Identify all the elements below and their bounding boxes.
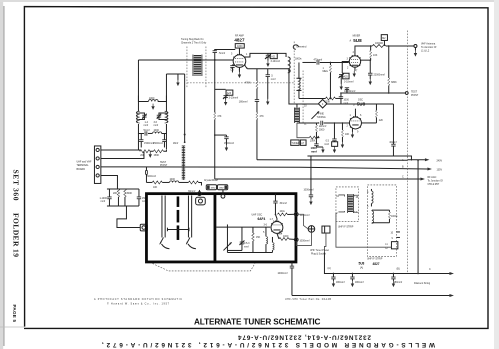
wire to coax connector: [117, 206, 140, 228]
svg-text:1500mmf: 1500mmf: [224, 142, 234, 145]
svg-text:30mmf: 30mmf: [188, 190, 196, 193]
B+ rail: [417, 160, 419, 273]
filament caps: [333, 273, 335, 275]
svg-text:MIXER: MIXER: [353, 34, 361, 37]
IF strip shield 1: [336, 187, 359, 222]
wire RF grid row: [138, 59, 233, 61]
osc plate stub: [354, 111, 356, 117]
ground: [149, 152, 152, 158]
trimmer 0.5-3mmf: [241, 227, 243, 242]
svg-text:240V: 240V: [436, 159, 442, 162]
svg-text:A PHOTOFACT STANDARD NOTATION: A PHOTOFACT STANDARD NOTATION SCHEMATIC: [94, 298, 182, 301]
svg-text:1000mmf: 1000mmf: [277, 272, 287, 275]
svg-text:1800s: 1800s: [295, 57, 302, 60]
wire T1 row: [101, 150, 140, 151]
resistor 1 MEG: [330, 62, 332, 64]
resistor 10K: [146, 181, 152, 183]
tuning shaft bar: [177, 196, 180, 207]
gang link line: [167, 228, 189, 230]
capacitor .5mmf: [267, 69, 269, 75]
bottom rail inside compartment: [227, 251, 272, 253]
wire T2 stub: [101, 151, 144, 158]
svg-text:A25: A25: [343, 76, 348, 79]
slug rack dashed gang: [186, 46, 188, 88]
resistor 300K vertical: [124, 189, 126, 197]
terminal 3: [96, 165, 99, 168]
lower network top rail: [107, 188, 139, 190]
svg-text:Filament String: Filament String: [414, 282, 431, 285]
capacitor 1500mmf agc: [214, 134, 216, 136]
top wall terminal 2: [222, 190, 224, 194]
svg-text:150K: 150K: [153, 154, 159, 157]
svg-text:POINT: POINT: [411, 94, 419, 97]
svg-text:UHF Tuner Power: UHF Tuner Power: [310, 249, 329, 252]
svg-text:1500mmf: 1500mmf: [146, 175, 156, 178]
box M2: [381, 35, 387, 41]
crystal mixer row components: [145, 167, 147, 171]
feedthrough terminal upper: [294, 212, 298, 216]
osc bottom rail: [307, 156, 411, 161]
wires plug: [296, 232, 311, 245]
svg-text:MEG: MEG: [322, 70, 328, 73]
variable cap arrow: [226, 224, 228, 250]
svg-text:1000: 1000: [169, 178, 175, 181]
svg-text:UHF-VHF Tuner Part No. DA14B: UHF-VHF Tuner Part No. DA14B: [285, 298, 331, 301]
resistor 20K: [140, 150, 150, 153]
osc tank coil: [265, 227, 267, 236]
capacitor 1500mmf right: [163, 133, 165, 139]
rotor wipe arcs: [161, 244, 169, 249]
svg-text:47K: 47K: [259, 115, 264, 118]
screen row wire: [245, 65, 248, 69]
resistor 10K lower: [297, 123, 309, 138]
svg-text:C: C: [402, 176, 404, 179]
svg-text:22K: 22K: [379, 119, 384, 122]
svg-text:FOLDER 19: FOLDER 19: [12, 213, 21, 257]
page edge shading top: [0, 0, 499, 2]
terminal 1: [96, 148, 99, 151]
svg-text:10K: 10K: [373, 54, 378, 57]
svg-text:1500mmf: 1500mmf: [153, 142, 163, 145]
svg-text:ALTERNATE TUNER SCHEMATIC: ALTERNATE TUNER SCHEMATIC: [194, 318, 321, 327]
svg-text:1N82: 1N82: [219, 188, 225, 190]
trimmer cap 1-4mmf: [138, 113, 144, 115]
svg-text:3300: 3300: [319, 129, 325, 132]
osc coil L6 slug: [293, 107, 295, 123]
ground: [177, 74, 179, 80]
svg-text:135V: 135V: [436, 169, 442, 172]
svg-text:Overwind: Overwind: [296, 46, 307, 49]
svg-text:1000mmf: 1000mmf: [299, 240, 309, 243]
svg-text:SET 360: SET 360: [12, 170, 21, 201]
resistor 1000 cathode: [277, 233, 279, 239]
capacitor 1-1000mmf: [108, 189, 110, 197]
dashed linkage below box: [152, 263, 255, 271]
svg-text:1000s: 1000s: [391, 215, 398, 218]
svg-text:180mmf: 180mmf: [336, 281, 345, 284]
svg-text:TUNING: TUNING: [316, 116, 325, 119]
feedthrough terminal lower: [294, 238, 298, 242]
svg-text:mmf: mmf: [153, 124, 158, 127]
IF coil b: [371, 209, 373, 212]
svg-text:180mmf: 180mmf: [355, 281, 364, 284]
wire: [163, 150, 166, 151]
power socket box: [322, 226, 330, 233]
svg-text:100000: 100000: [375, 42, 384, 45]
feedthrough 40mmf: [392, 104, 394, 144]
svg-text:3-10mmf: 3-10mmf: [344, 81, 354, 84]
svg-text:5U8: 5U8: [358, 261, 364, 265]
svg-text:mmf: mmf: [244, 245, 249, 248]
svg-text:UHF IF STRIP: UHF IF STRIP: [367, 258, 383, 261]
grid cap resistor 1000: [235, 44, 244, 48]
capacitor 1000mmf osc: [340, 92, 342, 94]
power plug circle: [308, 226, 315, 233]
svg-text:mmf: mmf: [311, 149, 317, 153]
neutralizing cap CN: [232, 64, 234, 67]
terminal 2: [96, 157, 99, 160]
ground: [151, 104, 154, 110]
svg-text:30mmf: 30mmf: [279, 202, 287, 205]
svg-text:mmf: mmf: [324, 143, 329, 146]
svg-text:1000: 1000: [149, 97, 155, 100]
filament return bus: [292, 294, 450, 296]
wire T3 long run to 135V arrow: [101, 167, 428, 169]
svg-text:(B): (B): [396, 267, 399, 270]
svg-text:2321N62/U-A-614, 2321N62/U-A-6: 2321N62/U-A-614, 2321N62/U-A-674: [238, 334, 371, 341]
svg-text:15K: 15K: [256, 236, 261, 239]
dashed chassis boundary: [406, 30, 408, 273]
trimmer A21 3-10mmf: [267, 53, 269, 55]
svg-text:4827: 4827: [234, 37, 245, 42]
arrow 135V: [427, 167, 432, 170]
resistor 22K: [361, 122, 376, 124]
svg-text:A21: A21: [271, 56, 276, 59]
B+ feed wire: [257, 159, 408, 162]
svg-text:470K: 470K: [245, 82, 251, 85]
capacitor 10000mmf: [346, 88, 348, 93]
wire T4 to lower network: [101, 175, 118, 189]
resistor 150K: [153, 150, 163, 153]
resistor 10K: [361, 59, 371, 61]
resistor 120K: [299, 97, 326, 99]
wire row 73.5: [166, 73, 184, 75]
svg-text:1000: 1000: [283, 235, 289, 238]
resistor 100K vertical: [315, 123, 317, 125]
svg-text:PAGE 5: PAGE 5: [12, 305, 17, 323]
svg-text:40mmf: 40mmf: [389, 141, 397, 144]
capacitor 1000mmf bold: [316, 137, 317, 138]
IF strip shield 2: [367, 185, 396, 257]
svg-text:20K: 20K: [113, 192, 118, 195]
capacitor 30mmf: [274, 194, 276, 202]
arrow RF AGC: [215, 178, 421, 180]
svg-text:mmf: mmf: [143, 124, 148, 127]
capacitor 1500mmf left: [139, 140, 143, 142]
svg-text:UHF and VHF: UHF and VHF: [76, 160, 92, 163]
svg-text:10K: 10K: [345, 133, 350, 136]
svg-text:300K: 300K: [126, 192, 132, 195]
resistor: [179, 181, 189, 183]
svg-text:47K: 47K: [217, 115, 222, 118]
svg-text:mmf: mmf: [100, 200, 105, 203]
resistor 1000 if: [372, 209, 390, 211]
svg-text:© Howard W. Sams & Co., Inc. 1: © Howard W. Sams & Co., Inc. 1957: [107, 302, 170, 305]
osc cathode ground: [351, 128, 353, 132]
filament bus: [324, 252, 449, 273]
mixer grid coil L5: [298, 62, 300, 78]
svg-text:(A): (A): [360, 267, 363, 270]
trimmer A25: [342, 61, 349, 73]
svg-text:1N82: 1N82: [210, 188, 216, 190]
svg-text:22000mmf: 22000mmf: [373, 74, 385, 77]
svg-text:100K: 100K: [310, 140, 316, 143]
svg-text:100s: 100s: [279, 210, 285, 213]
plate to 100000: [355, 46, 372, 56]
svg-text:18mf: 18mf: [173, 142, 179, 145]
resistor 470K: [256, 69, 258, 81]
svg-text:10000mmf: 10000mmf: [344, 90, 356, 93]
connector block I-1 I-2: [391, 242, 397, 249]
choke 1000: [162, 181, 169, 183]
svg-text:180mmf: 180mmf: [239, 101, 248, 104]
svg-text:3-10mmf: 3-10mmf: [229, 97, 239, 100]
capacitor 0.5mmf: [334, 122, 335, 123]
crystal diode 1N82 pack 1: [206, 185, 216, 190]
shield divider: [214, 194, 217, 262]
svg-text:3-10mmf: 3-10mmf: [270, 60, 280, 63]
osc grid row: [297, 122, 319, 124]
resistor 47K plate feed: [256, 112, 258, 119]
plate wire to A21 and coil: [245, 53, 286, 57]
RF plate coil L4: [288, 57, 290, 73]
capacitor 5mmf series: [145, 131, 147, 135]
IF coil a: [370, 189, 372, 191]
resistor 20K vertical: [117, 189, 119, 197]
feedback coil: [271, 237, 273, 243]
svg-text:1000mmf: 1000mmf: [303, 189, 313, 192]
choke 1000 top row: [138, 95, 148, 101]
waveform diamond 4: [318, 100, 326, 108]
antenna coil L1: [137, 60, 139, 111]
svg-text:C: C: [429, 268, 431, 271]
RF tuning coil L3 slug: [192, 54, 194, 75]
overwind indicator: [293, 45, 298, 49]
capacitor 1500mmf: [138, 189, 140, 197]
top wall terminal: [198, 190, 200, 192]
feedthrough capacitor 180mmf: [255, 100, 259, 102]
cathode ground: [238, 67, 240, 72]
svg-text:470mmf: 470mmf: [313, 58, 322, 61]
svg-text:UHF OSC: UHF OSC: [251, 214, 262, 217]
svg-text:(A): (A): [327, 267, 330, 270]
capacitor 22mmf: [321, 121, 323, 125]
wire coil bottoms: [138, 124, 144, 134]
svg-text:UHF IF STRIP: UHF IF STRIP: [338, 225, 354, 228]
terminal board TB1: [94, 146, 100, 184]
osc top rail: [297, 104, 319, 108]
svg-text:Crystal Mixer: Crystal Mixer: [204, 179, 218, 182]
wire IF1 pin2 to connector: [336, 213, 392, 247]
page edge shading left: [0, 0, 3, 349]
crystal diode 1N82 pack 2: [217, 185, 227, 190]
resistor 1000 plate: [275, 214, 277, 221]
terminal 4: [96, 174, 99, 177]
svg-text:TUNED: TUNED: [291, 142, 300, 145]
svg-text:TERMINAL: TERMINAL: [76, 164, 89, 167]
svg-text:1000: 1000: [237, 45, 243, 48]
resistor 3300: [318, 122, 319, 123]
antenna input connector: [196, 197, 206, 205]
svg-text:BOARD: BOARD: [76, 168, 85, 171]
trimmer cap 3-6mmf: [159, 113, 167, 115]
svg-text:680K: 680K: [391, 81, 397, 84]
wire down both sides: [140, 133, 142, 139]
svg-text:C55 & R57: C55 & R57: [427, 183, 439, 186]
resistor 10K osc: [342, 122, 343, 123]
grid row wire: [216, 226, 270, 228]
svg-text:POINT: POINT: [160, 164, 168, 167]
wire: [150, 150, 154, 152]
resistor 15K: [252, 227, 254, 233]
svg-text:10K: 10K: [153, 186, 158, 189]
antenna coil L2: [165, 74, 167, 112]
capacitor 470mmf: [317, 60, 319, 64]
svg-text:6AF4: 6AF4: [257, 217, 265, 221]
svg-text:WELLS-GARDNER MODELS 321N62/U-: WELLS-GARDNER MODELS 321N62/U-A-612, 321…: [102, 341, 435, 348]
variable capacitor section 2: [187, 195, 189, 237]
VHF antenna takeoff node: [414, 44, 417, 47]
coax connector J1 on tuner wall: [140, 224, 147, 231]
svg-text:5mmf: 5mmf: [143, 129, 149, 132]
mixer cathode ground: [354, 67, 356, 71]
tuned boxes: [291, 140, 299, 145]
svg-text:180mmf: 180mmf: [393, 281, 402, 284]
AGC rail with .5mmf top: [215, 49, 236, 50]
svg-text:mmf: mmf: [271, 78, 276, 81]
choke 1000: [148, 132, 153, 134]
page edge shading right: [494, 0, 499, 349]
resistor 47K agc: [214, 112, 216, 119]
UHF tuner shield box: [146, 194, 296, 262]
variable capacitor section 1: [161, 195, 163, 237]
trimmer A23 3-10mmf: [215, 88, 226, 90]
capacitor 1000mmf below box: [291, 262, 293, 266]
svg-text:5U8: 5U8: [353, 38, 362, 43]
svg-text:.5mmf: .5mmf: [218, 52, 225, 55]
mechanical link shaft: [184, 74, 186, 135]
resistor 680K: [388, 46, 390, 78]
arrow 240V: [407, 159, 425, 161]
test point row: [341, 92, 405, 94]
resistor 100000: [372, 44, 386, 47]
svg-text:1000mmf: 1000mmf: [299, 214, 309, 217]
wire mixer grid row: [302, 61, 316, 63]
svg-text:4827: 4827: [372, 262, 379, 266]
capacitor 22000mmf: [369, 59, 371, 61]
wire to IF feed cap: [310, 156, 312, 195]
svg-text:L1 & L2: L1 & L2: [421, 50, 430, 53]
pin stubs: [396, 231, 400, 233]
svg-text:Channels 2 Thru 6 Only: Channels 2 Thru 6 Only: [181, 41, 207, 44]
svg-text:1000: 1000: [153, 129, 159, 132]
lower network bottom rail: [107, 205, 139, 207]
